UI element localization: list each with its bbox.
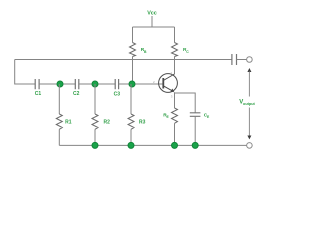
- resistor RB: [130, 43, 136, 57]
- svg-text:Vcc: Vcc: [147, 10, 157, 16]
- svg-text:2: 2: [153, 80, 155, 84]
- transistor Q1 circle: [159, 74, 178, 93]
- svg-text:R2: R2: [103, 120, 110, 126]
- terminal bottom output circle: [247, 143, 253, 149]
- wire Voutput line lower: [248, 108, 250, 136]
- svg-text:output: output: [243, 102, 256, 106]
- wire R1 bottom lead: [58, 129, 60, 145]
- node RE bottom junction dot: [172, 142, 178, 148]
- capacitor C2: [75, 79, 79, 89]
- resistor R3: [128, 114, 134, 129]
- node base junction dot: [129, 81, 135, 87]
- capacitor CE: [190, 113, 201, 117]
- wire collector drop: [174, 60, 176, 75]
- wire emitter vertical: [174, 92, 176, 108]
- svg-text:E: E: [207, 115, 210, 119]
- svg-text:B: B: [144, 50, 147, 54]
- node A junction dot: [57, 81, 63, 87]
- svg-text:C2: C2: [73, 91, 80, 97]
- wire Vcc stem: [151, 16, 153, 27]
- svg-text:C: C: [186, 50, 189, 54]
- wire C2 to node B: [79, 83, 115, 85]
- terminal top output circle: [247, 57, 253, 63]
- wire Cout to terminal: [237, 59, 247, 61]
- svg-text:3: 3: [171, 95, 173, 99]
- transistor Q1 base bar: [162, 78, 164, 89]
- svg-text:R3: R3: [139, 120, 146, 126]
- capacitor Cout: [232, 54, 237, 65]
- resistor R1: [56, 114, 62, 129]
- wire RE bottom lead: [174, 123, 176, 145]
- svg-text:E: E: [167, 115, 170, 119]
- svg-text:C3: C3: [114, 91, 121, 97]
- wire emitter branch to CE: [175, 93, 196, 113]
- wire CE bottom lead: [194, 116, 196, 145]
- svg-text:C1: C1: [35, 91, 42, 97]
- transistor Q1 emitter stroke with arrow: [163, 86, 172, 91]
- wire RC bottom to collector: [174, 57, 176, 75]
- capacitor C1: [35, 79, 39, 89]
- wire R3 bottom lead: [130, 129, 132, 145]
- transistor Q1 collector stroke: [163, 74, 174, 81]
- wire Voutput line upper: [248, 72, 250, 97]
- svg-text:R1: R1: [65, 120, 72, 126]
- node CE bottom junction dot: [192, 142, 198, 148]
- resistor R2: [92, 114, 98, 129]
- Voutput arrow up head: [247, 68, 251, 72]
- wire collector node horizontal line: [15, 59, 232, 61]
- wire RB bottom lead to base node: [132, 57, 134, 85]
- wire R2 bottom lead: [94, 129, 96, 145]
- capacitor C3: [115, 79, 118, 89]
- resistor RC: [172, 43, 178, 57]
- wire Vcc top rail: [133, 26, 175, 28]
- node R3 bottom junction dot: [128, 142, 134, 148]
- wire R3 top lead: [130, 84, 132, 114]
- wire C1 to node A: [39, 83, 75, 85]
- Voutput arrow down head: [247, 136, 251, 140]
- wire R1 top lead: [58, 84, 60, 114]
- wire R2 top lead: [94, 84, 96, 114]
- wire feedback left vertical: [15, 60, 36, 85]
- wire RC top lead: [174, 27, 176, 43]
- resistor RE: [172, 108, 178, 123]
- node R2 bottom junction dot: [92, 142, 98, 148]
- wire C3 to base: [119, 83, 164, 85]
- wire bottom rail: [59, 144, 246, 146]
- wire RB top lead: [132, 27, 134, 43]
- node B junction dot: [92, 81, 98, 87]
